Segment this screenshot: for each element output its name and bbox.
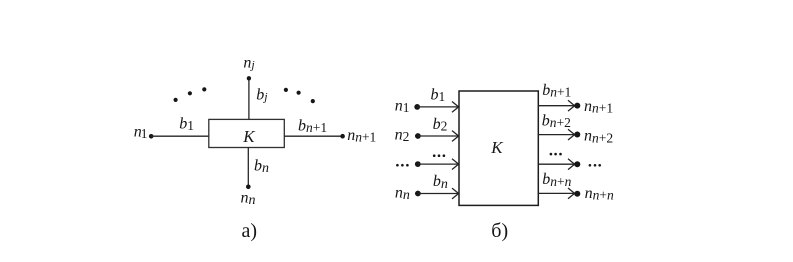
svg-text:bj: bj [256,87,268,104]
component box K (figure b) [459,91,538,205]
node nj dot [247,76,251,80]
svg-text:bn+n: bn+n [542,171,571,189]
svg-text:b1: b1 [431,87,446,105]
wire bn [247,148,249,187]
arrowhead b n+2 [568,129,575,140]
wire b n+1 [284,135,342,137]
wire b1 (b) [417,106,458,108]
svg-text:K: K [242,127,256,146]
node nn dot (b) [415,191,421,197]
svg-text:nn+n: nn+n [585,185,614,203]
node nn dot [246,185,251,190]
svg-text:bn: bn [254,158,269,177]
svg-text:b2: b2 [433,116,448,134]
node n n+1 dot [340,134,345,139]
wire b n+n [538,192,574,194]
svg-text:n1: n1 [134,123,148,141]
svg-text:bn+2: bn+2 [542,112,571,130]
wire row 3 (left) [418,163,459,165]
svg-text:nn+1: nn+1 [584,98,613,116]
svg-text:n1: n1 [395,97,410,115]
svg-text:b1: b1 [179,116,194,134]
node n n+1 dot (b right) [574,103,580,109]
arrowhead b2 [452,131,459,142]
node dot row 3 (right) [574,161,580,167]
ellipsis dots upper-right [284,88,315,103]
node dot row 3 (left) [415,161,421,167]
wire b1 [151,135,209,137]
arrowhead bn (b) [452,188,459,199]
arrowhead b1 [452,102,459,113]
svg-text:nj: nj [243,55,255,72]
ellipsis label above wire row 3 (right) [550,153,562,156]
wire bj [248,78,250,119]
svg-text:nn: nn [395,185,410,204]
node n n+n dot [574,191,580,197]
node n n+2 dot [574,132,580,138]
svg-text:bn+1: bn+1 [298,118,327,136]
svg-text:n2: n2 [395,127,410,145]
svg-text:nn+1: nn+1 [347,127,376,145]
arrowhead b n+n [568,188,575,199]
wire bn (b) [418,193,459,195]
arrowhead row 3 (left) [452,159,459,170]
ellipsis label left of row 3 [396,164,409,167]
wire b n+1 (b right) [538,105,574,107]
wire b2 [418,135,459,137]
ellipsis label right of row 3 dot [589,164,601,167]
svg-text:bn: bn [433,173,448,192]
svg-text:K: K [490,138,504,157]
node n2 dot [415,133,421,139]
arrowhead b n+1 (b right) [568,100,575,111]
wire row 3 (right) [538,163,574,165]
ellipsis dots upper-left [174,87,207,102]
node n1 dot (b) [414,104,420,110]
ellipsis label above wire row 3 (left) [433,154,445,157]
svg-text:nn: nn [241,190,256,209]
wire b n+2 [538,134,574,136]
svg-text:б): б) [491,220,508,242]
svg-text:а): а) [242,220,258,242]
component box K (figure a) [209,119,284,147]
node n1 dot [149,134,154,139]
svg-text:nn+2: nn+2 [584,128,613,146]
arrowhead row 3 (right) [568,159,575,170]
svg-text:bn+1: bn+1 [542,82,571,100]
